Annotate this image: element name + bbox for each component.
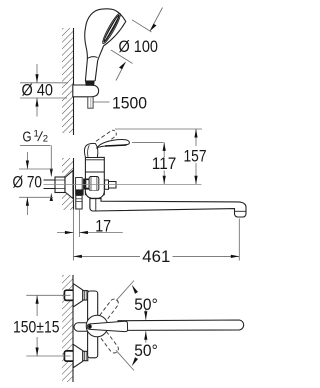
valve drum — [89, 177, 99, 191]
G1/2 leader lines and arrows — [20, 145, 51, 199]
spout with outlet (side view) — [90, 199, 246, 217]
shower face plate — [101, 12, 123, 45]
eccentric stub column — [76, 178, 83, 195]
union supply pipe (side view) — [44, 180, 56, 189]
svg-text:1500: 1500 — [112, 93, 147, 112]
svg-text:Ø 100: Ø 100 — [119, 37, 159, 56]
svg-text:1: 1 — [34, 128, 39, 139]
svg-text:461: 461 — [142, 247, 170, 266]
svg-text:157: 157 — [184, 146, 207, 165]
svg-text:50°: 50° — [134, 295, 158, 314]
wall middle section — [62, 158, 74, 210]
mixer body (side view) — [85, 157, 104, 194]
hand shower head dome — [85, 9, 126, 81]
dimension 150±15 — [26, 294, 70, 296]
hose connector insert — [85, 81, 94, 86]
wall top section — [62, 28, 74, 135]
dimension Ø 70 — [19, 152, 53, 215]
lower supply fitting — [64, 351, 74, 361]
lower escutcheon cone — [73, 344, 83, 367]
dimension Ø 40 — [20, 64, 68, 117]
pivot housing capsule to wall — [74, 323, 92, 332]
dark joint shadow — [76, 189, 84, 195]
union nut (side view) — [55, 177, 65, 193]
svg-text:50°: 50° — [134, 341, 158, 360]
hose stub — [88, 97, 93, 108]
svg-text:17: 17 — [95, 217, 111, 236]
dashed spout position lower — [100, 331, 120, 354]
wall bottom section — [62, 275, 73, 382]
pivot circle — [86, 315, 108, 337]
body bottom curve — [85, 191, 104, 199]
dark union nut at body — [83, 179, 89, 190]
leader 1500 — [94, 101, 110, 103]
body (bottom view) — [88, 291, 98, 358]
eccentric stub below union — [76, 195, 82, 209]
dimension Ø 100 — [111, 8, 163, 81]
reference line for 117/157 — [44, 183, 202, 185]
wall holder bracket — [73, 85, 99, 97]
lever (side view) — [97, 140, 129, 148]
check valve connector — [105, 180, 109, 189]
step ring — [86, 180, 89, 188]
lever dot — [88, 325, 92, 329]
svg-text:150±15: 150±15 — [13, 318, 60, 337]
lower union nut — [83, 351, 88, 360]
svg-text:Ø 40: Ø 40 — [22, 81, 54, 100]
dimension 117 — [132, 141, 164, 143]
dimension 17 — [72, 209, 74, 261]
upper union nut — [83, 291, 88, 300]
escutcheon cone (side view) — [65, 171, 73, 199]
svg-text:117: 117 — [152, 154, 177, 173]
svg-text:2: 2 — [43, 134, 48, 145]
lever knob (side view) — [85, 143, 98, 157]
dashed spout position upper — [100, 297, 120, 320]
dimension 461 — [238, 219, 240, 261]
upper escutcheon cone — [73, 284, 83, 307]
dimension 157 — [115, 128, 202, 130]
svg-text:G: G — [23, 129, 32, 146]
lever (bottom view) — [87, 321, 127, 331]
svg-text:Ø 70: Ø 70 — [13, 173, 43, 192]
shower neck line — [87, 57, 97, 59]
dimension 50 deg upper — [116, 281, 134, 301]
upper supply fitting — [64, 290, 74, 300]
dimension 50 deg lower — [116, 350, 134, 370]
dashed raised lever — [96, 130, 116, 147]
spout bar (bottom view) — [118, 320, 244, 330]
